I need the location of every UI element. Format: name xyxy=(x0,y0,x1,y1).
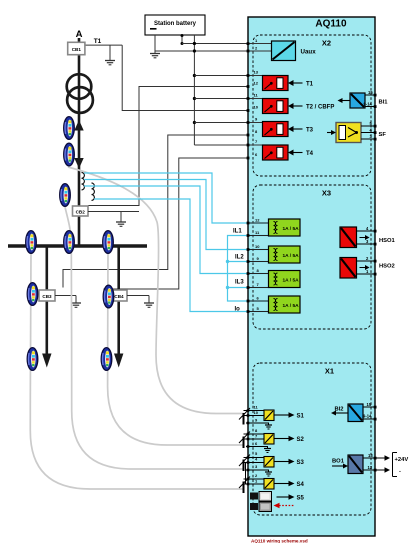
svg-text:S1: S1 xyxy=(297,414,305,420)
CT feeder2 ring xyxy=(103,285,114,308)
svg-text:15: 15 xyxy=(367,402,372,407)
wire pin 6 T4 trip to CB4 xyxy=(104,158,248,291)
breaker CB4 xyxy=(111,290,127,301)
relay output T2 xyxy=(263,99,335,114)
CT busbar 2 xyxy=(64,231,75,254)
CT feeder1 ring xyxy=(27,283,38,306)
junction dots on DC bus xyxy=(193,42,196,124)
chain wire S3 to S4 xyxy=(245,463,247,485)
X3 pin number labels xyxy=(255,218,260,312)
svg-text:12: 12 xyxy=(368,465,373,470)
switch input S3 xyxy=(239,451,305,476)
breaker CB2 xyxy=(73,206,89,216)
svg-text:S2: S2 xyxy=(297,437,305,443)
cyan junction dots xyxy=(226,260,229,289)
switch input S1 xyxy=(239,405,305,430)
X3 pin terminal dots left edge xyxy=(247,222,250,313)
svg-text:IL3: IL3 xyxy=(235,280,244,286)
wire battery minus stub xyxy=(154,35,156,51)
svg-text:AQ110: AQ110 xyxy=(315,19,347,30)
svg-text:10: 10 xyxy=(255,244,260,249)
wire pin 7 T4 supply xyxy=(194,144,262,146)
svg-text:1A / 5A: 1A / 5A xyxy=(283,253,300,259)
CT main line upper xyxy=(64,117,75,140)
current input IL1 xyxy=(269,219,301,236)
gray cable from busbar CT1 to S4 input xyxy=(30,252,243,489)
wire pin 13 T1 supply xyxy=(194,75,262,77)
svg-text:13: 13 xyxy=(368,453,373,458)
connector X3 dashed group xyxy=(253,185,371,329)
svg-text:T1: T1 xyxy=(94,38,102,45)
svg-text:9-14: 9-14 xyxy=(364,102,373,107)
X3 pin black stubs xyxy=(248,223,269,312)
X1 pin terminal dots left edge xyxy=(247,409,250,485)
X2 pin number labels xyxy=(254,38,259,157)
current input IL3 xyxy=(269,271,301,288)
binary input BI1 xyxy=(338,90,389,108)
cyan wire pin 9 stub xyxy=(228,261,269,263)
switch input S2 xyxy=(239,428,305,453)
switch input S4 xyxy=(239,473,305,493)
signal contact SF xyxy=(327,121,386,143)
svg-text:Io: Io xyxy=(235,307,241,313)
svg-text:CB3: CB3 xyxy=(42,294,52,299)
CT busbar 1 xyxy=(26,231,37,254)
current input IL2 xyxy=(269,246,301,263)
svg-text:-: - xyxy=(399,469,401,475)
svg-text:12: 12 xyxy=(255,218,260,223)
wire CB3 right to ground xyxy=(55,295,76,297)
svg-text:S5: S5 xyxy=(297,496,305,502)
wire CB4 right to ground xyxy=(127,295,149,297)
wire pin 2 (Uaux -) xyxy=(155,50,272,52)
svg-text:CB2: CB2 xyxy=(76,209,86,214)
ground near CB1 xyxy=(105,45,115,65)
svg-text:1A / 5A: 1A / 5A xyxy=(283,226,300,232)
ground near CB4 xyxy=(144,296,154,308)
svg-text:BI2: BI2 xyxy=(335,407,344,413)
svg-text:HSO1: HSO1 xyxy=(379,238,396,244)
wire pin 1 (Uaux +) xyxy=(182,43,272,45)
CT feeder1 cable xyxy=(27,348,38,371)
wire CB1 to ground branch xyxy=(85,44,122,46)
svg-text:+24V: +24V xyxy=(395,457,409,463)
CT secondary coil group 2 xyxy=(92,183,95,200)
right edge terminal dots xyxy=(374,94,377,472)
svg-text:T3: T3 xyxy=(306,128,314,134)
svg-text:T4: T4 xyxy=(306,151,314,157)
svg-text:IL1: IL1 xyxy=(233,229,242,235)
wire pin 11 T2 supply xyxy=(194,98,262,100)
CT secondary coil group 1 xyxy=(82,173,85,190)
svg-text:HSO2: HSO2 xyxy=(379,264,395,270)
svg-text:Uaux: Uaux xyxy=(301,49,317,56)
Uaux module xyxy=(272,41,317,61)
cyan wire pin 7 stub xyxy=(228,287,269,289)
feeder 1 arrow xyxy=(42,354,51,368)
svg-text:T2 / CBFP: T2 / CBFP xyxy=(306,105,334,111)
CT busbar 3 xyxy=(103,231,114,254)
wire battery DC bus vertical xyxy=(193,35,195,145)
station battery box xyxy=(145,15,205,35)
connector X2 dashed group xyxy=(253,35,371,176)
connector X1 dashed group xyxy=(253,363,371,515)
svg-text:Station battery: Station battery xyxy=(154,21,197,27)
AQ110 relay block xyxy=(248,17,375,536)
local port S5 connector blocks xyxy=(250,492,272,512)
svg-text:BI1: BI1 xyxy=(379,100,389,106)
power transformer xyxy=(67,74,93,113)
svg-text:10: 10 xyxy=(254,105,259,110)
svg-text:1A / 5A: 1A / 5A xyxy=(283,278,300,284)
wire pin 9 T3 supply xyxy=(194,122,262,124)
cyan wire W1 coil to pin 12 IL1 xyxy=(84,173,269,223)
cyan wire W3 coil to pin 8 IL3 xyxy=(84,186,269,274)
svg-text:15: 15 xyxy=(368,90,373,95)
svg-text:10: 10 xyxy=(254,410,259,415)
gray cable from CT3 via busbar CT2 to S3 input xyxy=(65,207,244,469)
wire CB2 right to ground xyxy=(88,211,139,213)
svg-text:1A / 5A: 1A / 5A xyxy=(283,303,300,309)
svg-text:S4: S4 xyxy=(297,482,305,488)
CT main line lower xyxy=(64,143,75,166)
wire pin 12 T1 trip to CB2 xyxy=(88,87,248,206)
svg-text:CB1: CB1 xyxy=(72,47,82,52)
relay output T4 xyxy=(263,145,314,160)
feeder 1 vertical xyxy=(45,246,48,354)
ground battery minus xyxy=(150,51,160,58)
gray cable from CT2 to S1 input xyxy=(68,167,244,414)
svg-text:CB4: CB4 xyxy=(114,294,124,299)
busbar xyxy=(8,244,147,247)
cyan wire W4 coil common to pin 5 xyxy=(94,199,269,312)
CT main line at coils xyxy=(60,184,71,207)
X2 pin terminal dots left edge xyxy=(247,42,250,159)
arrow up on incoming xyxy=(74,120,83,131)
breaker CB1 xyxy=(68,42,85,54)
main incoming feeder line xyxy=(78,38,81,246)
wire battery plus stub to pin1 line xyxy=(181,35,183,44)
arrow S5 xyxy=(277,494,305,501)
svg-text:X2: X2 xyxy=(322,39,331,48)
gray cable from busbar CT3 to S2 input xyxy=(108,250,244,445)
red dashed arrow xyxy=(274,503,296,509)
relay output T1 xyxy=(263,76,314,91)
current input Io xyxy=(269,296,301,313)
breaker CB3 xyxy=(39,290,55,301)
binary output BO1 xyxy=(332,453,408,477)
feeder 2 vertical xyxy=(117,246,120,354)
svg-text:13: 13 xyxy=(254,70,259,75)
svg-text:IL2: IL2 xyxy=(235,255,244,261)
binary input BI2 xyxy=(331,402,375,422)
svg-text:BO1: BO1 xyxy=(332,459,345,465)
svg-text:9-14: 9-14 xyxy=(363,414,372,419)
cyan wire W2 coil to pin 10 IL2 xyxy=(84,180,269,250)
high speed output HSO1 xyxy=(340,226,396,248)
ground near CB2 xyxy=(116,212,126,227)
svg-text:X1: X1 xyxy=(325,367,334,376)
feeder 2 arrow xyxy=(114,354,123,368)
svg-text:12: 12 xyxy=(254,81,259,86)
ground near CB3 xyxy=(71,296,81,308)
wire pin 10 T2 trip to CB1 xyxy=(122,45,248,110)
high speed output HSO2 xyxy=(340,256,395,278)
svg-text:AQ110 wiring scheme.vsd: AQ110 wiring scheme.vsd xyxy=(251,539,308,543)
wire pin 8 T3 trip to CB3 xyxy=(63,135,248,288)
svg-text:SF: SF xyxy=(379,132,387,138)
svg-text:T1: T1 xyxy=(306,82,314,88)
arrow down on incoming xyxy=(74,158,83,169)
svg-text:S3: S3 xyxy=(297,460,305,466)
CT feeder2 cable xyxy=(101,348,112,371)
svg-text:X3: X3 xyxy=(322,189,331,198)
relay output T3 xyxy=(263,122,314,137)
cyan wire common bus pins 11 9 7 6 xyxy=(228,236,269,302)
